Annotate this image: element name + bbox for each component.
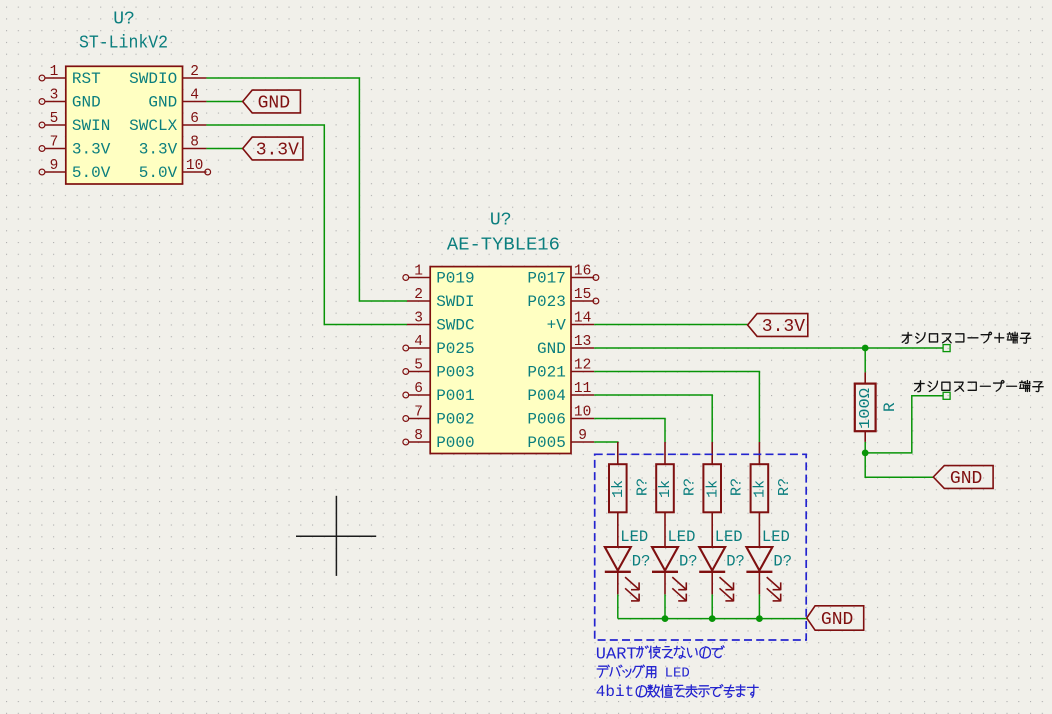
wire junction to GND label (right) xyxy=(865,453,933,477)
svg-text:4: 4 xyxy=(414,334,423,350)
svg-text:9: 9 xyxy=(578,428,587,444)
global label 3.3V (top) xyxy=(243,137,303,161)
U? ST-Link pin 6 SWCLX xyxy=(129,111,206,135)
wire ST-Link pin8 to 3.3V label xyxy=(206,148,242,150)
svg-text:R: R xyxy=(881,402,899,412)
U? AE-TYBLE16 pin 12 P021 xyxy=(527,358,594,382)
svg-text:LED: LED xyxy=(762,528,790,546)
wire GND rail under LEDs xyxy=(618,618,807,620)
svg-text:SWIN: SWIN xyxy=(72,117,110,135)
reference D? (column 2) xyxy=(679,553,698,571)
global label GND (right) xyxy=(933,466,993,490)
svg-text:GND: GND xyxy=(821,610,853,630)
U? AE-TYBLE16 pin 16 P017 xyxy=(527,264,598,288)
svg-text:8: 8 xyxy=(414,428,423,444)
wire AE pin 9 to resistor R1 xyxy=(594,441,618,444)
junction (pin13 / R divider) xyxy=(862,345,869,352)
svg-text:P003: P003 xyxy=(436,364,474,382)
label LED (column 3) xyxy=(715,528,743,546)
svg-text:R?: R? xyxy=(776,478,793,496)
svg-text:1k: 1k xyxy=(752,480,769,498)
junction (LED3 rail) xyxy=(709,615,716,622)
wire LED 1 to GND rail xyxy=(617,594,619,618)
svg-text:P004: P004 xyxy=(527,387,565,405)
svg-text:4: 4 xyxy=(190,88,199,104)
wire LED 2 to GND rail xyxy=(664,594,666,618)
svg-text:3.3V: 3.3V xyxy=(256,141,299,161)
svg-text:D?: D? xyxy=(726,553,745,571)
U? AE-TYBLE16 pin 1 P019 xyxy=(403,264,475,288)
svg-text:P017: P017 xyxy=(527,270,565,288)
wire LED 3 to GND rail xyxy=(711,594,713,618)
wire AE pin 12 to resistor R4 xyxy=(594,372,759,443)
resistor R? 1k (column 2) xyxy=(656,442,674,547)
svg-text:11: 11 xyxy=(574,381,591,397)
svg-text:2: 2 xyxy=(190,64,199,80)
wire AE pin 10 to resistor R2 xyxy=(594,419,665,443)
svg-text:D?: D? xyxy=(632,553,651,571)
svg-text:1k: 1k xyxy=(610,480,627,498)
svg-text:5: 5 xyxy=(50,111,59,127)
U? ST-Link pin 8 3.3V xyxy=(139,135,207,159)
svg-text:D?: D? xyxy=(773,553,792,571)
LED D? (column 3) xyxy=(699,547,733,601)
svg-text:10: 10 xyxy=(186,158,203,174)
label LED (column 4) xyxy=(762,528,790,546)
LED D? (column 4) xyxy=(746,547,780,601)
label オシロスコープー端子 xyxy=(915,381,1043,392)
svg-text:2: 2 xyxy=(414,287,423,303)
svg-text:8: 8 xyxy=(190,135,199,151)
svg-text:1k: 1k xyxy=(704,480,721,498)
resistor R? 1k (column 1) xyxy=(609,442,627,547)
label オシロスコープ+端子 xyxy=(902,332,1030,343)
note box (dashed, around LEDs) xyxy=(595,454,807,640)
reference D? (column 4) xyxy=(773,553,792,571)
resistor R 100Ω xyxy=(855,348,876,453)
svg-text:10: 10 xyxy=(574,405,591,421)
U? ST-Link pin 7 3.3V xyxy=(39,135,111,159)
value AE-TYBLE16 xyxy=(447,236,560,256)
svg-text:GND: GND xyxy=(72,94,101,112)
svg-text:AE-TYBLE16: AE-TYBLE16 xyxy=(447,236,560,256)
wire SWCLX: ST-Link pin6 to AE pin3 xyxy=(206,125,407,325)
svg-text:UART: UART xyxy=(596,646,637,665)
value 1k (R3, rotated) xyxy=(704,480,721,498)
LED D? (column 1) xyxy=(605,547,639,601)
global label 3.3V (at +V) xyxy=(748,314,808,338)
junction (below R) xyxy=(862,450,869,457)
U? AE-TYBLE16 pin 5 P003 xyxy=(403,358,475,382)
junction (LED2 rail) xyxy=(662,615,669,622)
svg-text:LED: LED xyxy=(620,528,648,546)
IC U? AE-TYBLE16 xyxy=(430,267,571,454)
label LED (column 1) xyxy=(620,528,648,546)
svg-text:4bit: 4bit xyxy=(596,683,634,701)
global label GND (LED rail) xyxy=(807,606,864,630)
reference D? (column 1) xyxy=(632,553,651,571)
svg-text:U?: U? xyxy=(113,10,135,30)
value 1k (R1, rotated) xyxy=(610,480,627,498)
svg-text:1k: 1k xyxy=(657,480,674,498)
svg-text:3.3V: 3.3V xyxy=(139,141,178,159)
U? ST-Link pin 5 SWIN xyxy=(39,111,110,135)
wire AE pin 11 to resistor R3 xyxy=(594,395,712,442)
svg-text:6: 6 xyxy=(190,111,199,127)
svg-text:12: 12 xyxy=(574,358,591,374)
svg-text:SWCLX: SWCLX xyxy=(129,117,177,135)
svg-text:+V: +V xyxy=(547,317,567,335)
cursor crosshair xyxy=(296,496,376,576)
svg-text:5: 5 xyxy=(414,358,423,374)
junction (LED4 rail) xyxy=(756,615,763,622)
svg-text:7: 7 xyxy=(50,135,59,151)
svg-text:P021: P021 xyxy=(527,364,565,382)
svg-text:P006: P006 xyxy=(527,411,565,429)
svg-text:P019: P019 xyxy=(436,270,474,288)
svg-text:SWDC: SWDC xyxy=(436,317,474,335)
U? ST-Link pin 3 GND xyxy=(39,88,101,112)
reference R? (R1, rotated) xyxy=(634,478,651,496)
svg-text:GND: GND xyxy=(148,94,177,112)
value 100Ω (rotated) xyxy=(857,388,874,429)
svg-text:15: 15 xyxy=(574,287,591,303)
svg-text:13: 13 xyxy=(574,334,591,350)
svg-text:6: 6 xyxy=(414,381,423,397)
svg-text:RST: RST xyxy=(72,70,101,88)
svg-text:P005: P005 xyxy=(527,434,565,452)
U? AE-TYBLE16 pin 2 SWDI xyxy=(407,287,475,311)
svg-text:GND: GND xyxy=(258,94,290,114)
reference R? (R4, rotated) xyxy=(776,478,793,496)
value ST-LinkV2 xyxy=(79,34,168,54)
U? AE-TYBLE16 pin 4 P025 xyxy=(403,334,475,358)
svg-text:3.3V: 3.3V xyxy=(72,141,111,159)
svg-text:GND: GND xyxy=(537,340,566,358)
svg-text:P025: P025 xyxy=(436,340,474,358)
wire ST-Link pin4 to GND label xyxy=(206,101,242,103)
svg-text:SWDI: SWDI xyxy=(436,293,474,311)
svg-text:P002: P002 xyxy=(436,411,474,429)
svg-text:P000: P000 xyxy=(436,434,474,452)
global label GND (top) xyxy=(243,90,301,114)
svg-text:LED: LED xyxy=(665,665,690,681)
wire AE pin14 +V to 3.3V label xyxy=(594,324,747,326)
svg-text:R?: R? xyxy=(682,478,699,496)
svg-text:9: 9 xyxy=(50,158,59,174)
unconnected wire end square (oscilloscope -) xyxy=(943,392,950,399)
reference D? (column 3) xyxy=(726,553,745,571)
svg-text:LED: LED xyxy=(715,528,743,546)
wire LED 4 to GND rail xyxy=(758,594,760,618)
U? ST-Link pin 9 5.0V xyxy=(39,158,111,182)
svg-text:R?: R? xyxy=(729,478,746,496)
wire SWDIO: ST-Link pin2 to AE pin2 xyxy=(206,78,407,301)
U? AE-TYBLE16 pin 13 GND xyxy=(537,334,594,358)
svg-text:7: 7 xyxy=(414,405,423,421)
U? AE-TYBLE16 pin 11 P004 xyxy=(527,381,594,405)
U? ST-Link pin 4 GND xyxy=(148,88,206,112)
wire AE pin13 GND to oscilloscope + xyxy=(594,347,943,349)
U? AE-TYBLE16 pin 9 P005 xyxy=(527,428,594,452)
U? ST-Link pin 1 RST xyxy=(39,64,101,88)
reference R? (R3, rotated) xyxy=(729,478,746,496)
U? AE-TYBLE16 pin 8 P000 xyxy=(403,428,475,452)
svg-text:1: 1 xyxy=(414,264,423,280)
svg-text:16: 16 xyxy=(574,264,591,280)
U? AE-TYBLE16 pin 7 P002 xyxy=(403,405,475,429)
wire to oscilloscope - square xyxy=(865,396,943,453)
U? AE-TYBLE16 pin 10 P006 xyxy=(527,405,594,429)
reference U? (ST-Link) xyxy=(113,10,135,30)
reference R? (R2, rotated) xyxy=(682,478,699,496)
svg-text:P001: P001 xyxy=(436,387,474,405)
U? AE-TYBLE16 pin 14 +V xyxy=(547,311,595,335)
U? AE-TYBLE16 pin 15 P023 xyxy=(527,287,598,311)
svg-text:U?: U? xyxy=(490,211,512,231)
label LED (column 2) xyxy=(668,528,696,546)
svg-text:14: 14 xyxy=(574,311,591,327)
svg-text:5.0V: 5.0V xyxy=(139,164,178,182)
U? AE-TYBLE16 pin 6 P001 xyxy=(403,381,475,405)
svg-text:R?: R? xyxy=(634,478,651,496)
note text 4bitの数値を表示できます xyxy=(596,683,758,701)
value 1k (R4, rotated) xyxy=(752,480,769,498)
svg-text:P023: P023 xyxy=(527,293,565,311)
svg-text:SWDIO: SWDIO xyxy=(129,70,177,88)
U? AE-TYBLE16 pin 3 SWDC xyxy=(407,311,475,335)
svg-text:LED: LED xyxy=(668,528,696,546)
svg-text:3.3V: 3.3V xyxy=(762,317,805,337)
resistor R? 1k (column 4) xyxy=(751,442,769,547)
svg-text:3: 3 xyxy=(50,88,59,104)
connector U? ST-LinkV2 xyxy=(66,66,183,184)
note text UARTが使えないので xyxy=(596,646,724,665)
svg-text:1: 1 xyxy=(50,64,59,80)
svg-text:3: 3 xyxy=(414,311,423,327)
U? ST-Link pin 10 5.0V xyxy=(139,158,211,182)
reference U? (AE-TYBLE16) xyxy=(490,211,512,231)
unconnected wire end square (oscilloscope +) xyxy=(943,345,950,352)
svg-text:GND: GND xyxy=(950,469,982,489)
value 1k (R2, rotated) xyxy=(657,480,674,498)
U? ST-Link pin 2 SWDIO xyxy=(129,64,206,88)
note text デバッグ用LED xyxy=(597,665,690,681)
svg-text:ST-LinkV2: ST-LinkV2 xyxy=(79,34,168,54)
resistor R? 1k (column 3) xyxy=(703,442,721,547)
svg-text:100Ω: 100Ω xyxy=(857,388,874,429)
svg-text:D?: D? xyxy=(679,553,698,571)
reference R (rotated) xyxy=(881,402,899,412)
LED D? (column 2) xyxy=(652,547,686,601)
svg-text:5.0V: 5.0V xyxy=(72,164,111,182)
